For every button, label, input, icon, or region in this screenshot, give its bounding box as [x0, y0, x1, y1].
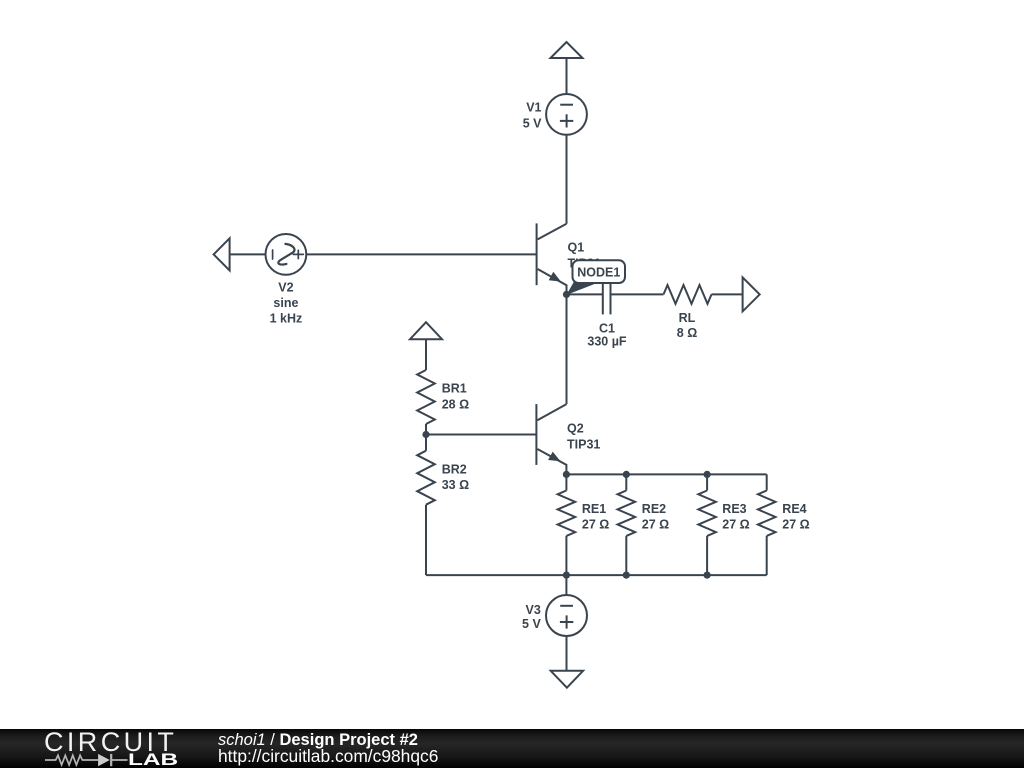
svg-text:NODE1: NODE1	[577, 266, 620, 280]
title line	[218, 731, 418, 750]
wire	[425, 424, 427, 451]
resistor RL	[664, 285, 712, 304]
node flag NODE1	[567, 260, 626, 295]
voltage source V3	[546, 595, 587, 636]
terminal flag (right of RL)	[743, 277, 760, 311]
svg-text:Q2: Q2	[567, 421, 584, 435]
svg-text:27 Ω: 27 Ω	[722, 517, 749, 531]
wire (emitter rail)	[566, 473, 766, 475]
wire	[306, 253, 536, 255]
wire	[425, 339, 427, 370]
svg-text:RE4: RE4	[782, 502, 806, 516]
wire	[567, 293, 603, 295]
svg-text:8 Ω: 8 Ω	[677, 326, 697, 340]
wire	[566, 135, 568, 224]
footer bar	[0, 729, 1024, 768]
ground	[551, 671, 583, 688]
svg-text:TIP31: TIP31	[567, 437, 600, 451]
wire	[566, 294, 568, 404]
svg-text:27 Ω: 27 Ω	[582, 517, 609, 531]
node B junction	[422, 431, 429, 438]
resistor RE1	[565, 474, 567, 490]
power flag (above BR1)	[410, 322, 442, 339]
resistor RE4	[766, 474, 768, 490]
node A junction	[563, 291, 570, 298]
terminal flag (left of V2)	[214, 238, 230, 270]
wire	[426, 434, 536, 436]
svg-text:330 µF: 330 µF	[587, 335, 627, 349]
logo resistor-diode icon + LAB	[0, 729, 200, 768]
svg-text:28 Ω: 28 Ω	[442, 397, 469, 411]
node junctions on bottom rail	[563, 572, 570, 579]
svg-text:33 Ω: 33 Ω	[442, 478, 469, 492]
svg-text:5 V: 5 V	[523, 116, 542, 130]
voltage source V1	[546, 94, 587, 135]
svg-text:BR2: BR2	[442, 462, 467, 476]
svg-text:BR1: BR1	[442, 382, 467, 396]
svg-text:Q1: Q1	[568, 241, 585, 255]
resistor RE3	[706, 474, 708, 490]
resistor BR2	[417, 451, 435, 505]
resistor BR1	[417, 370, 435, 424]
svg-text:V1: V1	[526, 101, 541, 115]
CircuitLab logo wordmark	[44, 727, 177, 758]
svg-text:RE2: RE2	[642, 502, 666, 516]
wire (bottom rail)	[426, 574, 767, 576]
wire	[712, 293, 743, 295]
svg-text:RE1: RE1	[582, 502, 606, 516]
node junctions on top rail	[563, 471, 570, 478]
wire	[566, 58, 568, 94]
svg-text:RL: RL	[679, 311, 696, 325]
svg-text:V2: V2	[278, 281, 293, 295]
wire	[425, 505, 427, 575]
resistor RE2	[625, 474, 627, 490]
transistor Q2	[535, 404, 537, 465]
svg-text:RE3: RE3	[722, 502, 746, 516]
voltage source V2 (sine)	[266, 234, 307, 275]
url line	[218, 746, 438, 767]
wire	[566, 636, 568, 671]
svg-text:C1: C1	[599, 321, 615, 335]
wire	[611, 293, 664, 295]
wire	[230, 253, 266, 255]
svg-text:1 kHz: 1 kHz	[270, 312, 303, 326]
svg-text:V3: V3	[526, 603, 541, 617]
svg-text:5 V: 5 V	[522, 617, 541, 631]
capacitor C1	[602, 274, 604, 314]
svg-text:27 Ω: 27 Ω	[642, 517, 669, 531]
transistor Q1	[536, 223, 538, 285]
power flag (top, above V1)	[551, 42, 583, 58]
svg-text:sine: sine	[273, 296, 298, 310]
wire	[565, 575, 567, 595]
svg-text:27 Ω: 27 Ω	[782, 517, 809, 531]
